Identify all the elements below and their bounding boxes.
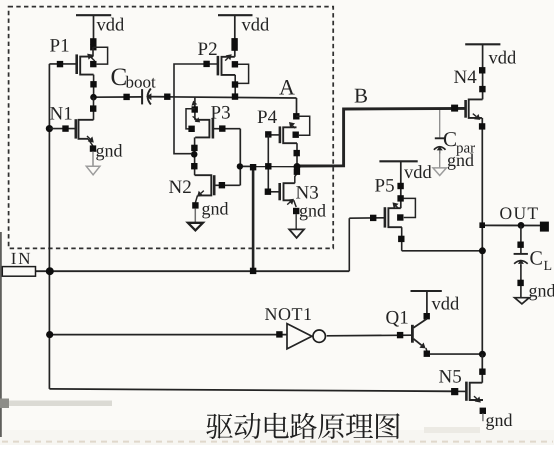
svg-text:gnd: gnd bbox=[202, 199, 229, 219]
svg-text:B: B bbox=[354, 84, 368, 108]
svg-text:L: L bbox=[544, 259, 553, 274]
svg-text:N2: N2 bbox=[169, 177, 192, 198]
svg-text:N3: N3 bbox=[296, 183, 319, 204]
svg-text:N4: N4 bbox=[454, 67, 478, 88]
svg-text:N1: N1 bbox=[50, 104, 73, 125]
svg-text:gnd: gnd bbox=[96, 141, 123, 161]
svg-text:gnd: gnd bbox=[486, 410, 513, 430]
svg-text:C: C bbox=[530, 248, 543, 270]
svg-text:P4: P4 bbox=[257, 107, 278, 128]
svg-text:N5: N5 bbox=[439, 367, 462, 388]
svg-text:gnd: gnd bbox=[447, 150, 474, 170]
svg-text:NOT1: NOT1 bbox=[265, 304, 313, 324]
svg-text:boot: boot bbox=[126, 73, 157, 92]
svg-text:gnd: gnd bbox=[529, 281, 554, 301]
svg-text:C: C bbox=[443, 127, 457, 151]
svg-text:P2: P2 bbox=[198, 39, 218, 60]
svg-text:vdd: vdd bbox=[242, 16, 271, 36]
svg-text:OUT: OUT bbox=[500, 203, 540, 223]
svg-text:gnd: gnd bbox=[299, 201, 326, 221]
svg-text:Q1: Q1 bbox=[386, 308, 409, 329]
svg-text:P3: P3 bbox=[211, 103, 231, 124]
svg-text:P5: P5 bbox=[375, 176, 395, 197]
svg-text:A: A bbox=[279, 75, 295, 100]
svg-text:vdd: vdd bbox=[404, 163, 433, 183]
svg-text:vdd: vdd bbox=[489, 49, 518, 69]
svg-text:vdd: vdd bbox=[432, 295, 461, 315]
svg-text:vdd: vdd bbox=[97, 16, 126, 36]
svg-text:IN: IN bbox=[11, 249, 33, 268]
svg-text:P1: P1 bbox=[50, 36, 70, 57]
